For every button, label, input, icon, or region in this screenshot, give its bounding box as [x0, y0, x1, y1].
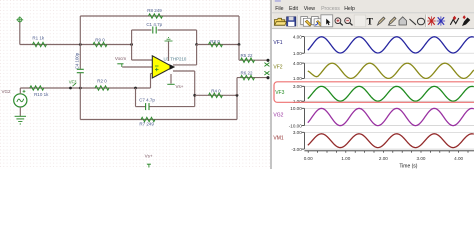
window: diagram viewer: [271, 0, 474, 169]
svg-text:3.00: 3.00: [293, 130, 302, 135]
wire R8 feedback loop: [79, 16, 81, 45]
blank button slot: [354, 15, 366, 27]
svg-text:Time (s): Time (s): [399, 164, 417, 170]
svg-text:VF3: VF3: [69, 79, 77, 84]
capacitor C4 100p: [79, 45, 81, 69]
node junction C7-loop left: [134, 87, 137, 90]
svg-text:3.00: 3.00: [293, 84, 302, 89]
icon pen 2: [389, 17, 397, 25]
icon copy pages: [301, 17, 308, 25]
wire R7 feedback loop: [79, 88, 81, 120]
icon line: [410, 19, 417, 25]
node junction R4 left: [193, 94, 196, 97]
trace row VF1: [305, 36, 474, 38]
icon blue cross cursors: [438, 17, 444, 25]
wire rail2: [20, 87, 150, 89]
node junction C4/R7: [79, 87, 82, 90]
svg-text:R7 249: R7 249: [139, 122, 154, 127]
svg-text:R8 249: R8 249: [147, 8, 162, 13]
svg-text:C7 4.7p: C7 4.7p: [139, 98, 155, 103]
wire OUT+: [173, 64, 197, 66]
trace row VF3: [305, 85, 474, 87]
node junction C1-loop left: [130, 43, 133, 46]
resistor R9 0: [93, 42, 107, 46]
node junction R4/R7/R6: [236, 94, 239, 97]
op-amp top pin to power symbol: [168, 42, 170, 62]
selection box around VF3: [274, 82, 474, 103]
svg-text:3.00: 3.00: [417, 156, 426, 161]
svg-text:VG2: VG2: [273, 113, 283, 119]
icon pen edit: [462, 18, 470, 27]
icon red cross cursors: [428, 17, 434, 25]
svg-text:VF1: VF1: [273, 40, 282, 46]
svg-text:R6 22: R6 22: [240, 70, 253, 75]
svg-text:VF3: VF3: [275, 90, 284, 96]
svg-text:VF2: VF2: [273, 65, 282, 71]
resistor R10 1k: [30, 86, 44, 90]
x axis: [304, 150, 474, 152]
resistor R3 0: [197, 44, 239, 46]
resistor R6 22: [241, 75, 255, 79]
voltage pin marker X lower: [264, 71, 269, 75]
wire rail1: [20, 44, 132, 46]
svg-text:VM1: VM1: [273, 136, 284, 142]
ground below VG2: [19, 107, 21, 116]
resistor R4 0: [195, 94, 237, 96]
op-amp U3 THP210: [152, 56, 173, 78]
op-amp bottom pin to Vs+ jumper: [170, 74, 172, 84]
svg-text:1.00: 1.00: [293, 99, 302, 104]
trace row VM1: [305, 131, 474, 133]
plus marker: [23, 90, 26, 92]
pressed cursor button: [321, 15, 333, 27]
wire IN- drop: [131, 45, 133, 61]
svg-text:4.00: 4.00: [293, 61, 302, 66]
voltage source VG2: [14, 94, 27, 107]
icon save floppy: [287, 17, 296, 26]
svg-text:C4 100p: C4 100p: [75, 52, 80, 69]
svg-text:R3 0: R3 0: [210, 39, 220, 44]
wire C1 feedback loop: [131, 30, 133, 45]
trace row VG2: [305, 107, 474, 109]
svg-text:R1 1k: R1 1k: [32, 36, 45, 41]
svg-text:R5 22: R5 22: [240, 53, 253, 58]
input terminal symbol (top-left green): [18, 18, 22, 22]
svg-text:2.00: 2.00: [379, 156, 388, 161]
svg-text:10.00: 10.00: [290, 106, 302, 111]
node output pin VF2 dot: [266, 76, 269, 79]
schematic background with grid: [0, 0, 272, 169]
svg-text:VG2: VG2: [1, 89, 11, 94]
node junction R3/R8/R5: [238, 43, 241, 46]
icon ellipse: [417, 18, 424, 25]
svg-text:Process: Process: [321, 6, 340, 12]
jumper Vocm: [117, 63, 123, 65]
wire R5 branch: [238, 45, 240, 61]
svg-text:R10 1k: R10 1k: [34, 92, 49, 97]
svg-text:-10.00: -10.00: [289, 123, 302, 128]
svg-text:R2 0: R2 0: [97, 79, 107, 84]
icon zoom in: [335, 18, 341, 24]
svg-text:-3.00: -3.00: [291, 147, 302, 152]
svg-text:Edit: Edit: [289, 6, 298, 12]
node junction rail1/feedback: [79, 43, 82, 46]
capacitor C7 4.7p: [145, 103, 147, 110]
svg-text:4.00: 4.00: [454, 156, 463, 161]
svg-text:1.00: 1.00: [293, 76, 302, 81]
resistor R8 249: [149, 14, 163, 18]
icon interpolate/house: [399, 17, 406, 25]
toolbar separator: [425, 15, 427, 28]
svg-text:1.00: 1.00: [341, 156, 350, 161]
node VF3 voltage pin: [69, 87, 72, 90]
wire R6 branch: [236, 78, 238, 96]
wire VG2 to rail2: [19, 88, 21, 94]
svg-text:Vs+: Vs+: [176, 84, 184, 89]
svg-text:File: File: [275, 6, 283, 12]
svg-text:4.00: 4.00: [293, 34, 302, 39]
svg-text:Help: Help: [344, 6, 355, 12]
icon open folder: [275, 18, 285, 25]
resistor R1 1k: [33, 42, 47, 46]
node junction OUT+/R3: [195, 43, 198, 46]
icon label curve: [450, 18, 459, 25]
resistor R7 249: [141, 117, 155, 121]
svg-text:Vs+: Vs+: [145, 153, 153, 158]
svg-text:0.00: 0.00: [304, 156, 313, 161]
icon paste page: [312, 17, 319, 25]
svg-text:C1 4.7p: C1 4.7p: [146, 22, 162, 27]
svg-text:U3 THP210: U3 THP210: [164, 56, 187, 61]
svg-text:View: View: [304, 6, 315, 12]
svg-text:Vocm: Vocm: [115, 56, 127, 61]
wire OUT-: [173, 70, 195, 72]
node output pin VF1 dot: [266, 59, 269, 62]
wire from input down to rail1: [19, 22, 21, 45]
resistor R5 22: [241, 58, 255, 62]
plot panel: [272, 29, 474, 169]
icon zoom out: [345, 18, 351, 24]
capacitor C1 4.7p: [152, 27, 154, 34]
wire C7 loop: [135, 88, 137, 107]
resistor R2 0: [95, 86, 109, 90]
svg-text:T: T: [367, 18, 374, 28]
svg-text:R9 0: R9 0: [95, 38, 105, 43]
icon pen 1: [378, 17, 386, 25]
wire Vocm to op-amp: [122, 66, 152, 68]
toolbar separator left: [297, 15, 299, 27]
trace row VF2: [305, 62, 474, 64]
svg-text:1.00: 1.00: [293, 51, 302, 56]
voltage pin marker X upper: [264, 63, 269, 67]
svg-text:R4 0: R4 0: [211, 88, 221, 93]
wire IN+ rise: [150, 74, 152, 89]
